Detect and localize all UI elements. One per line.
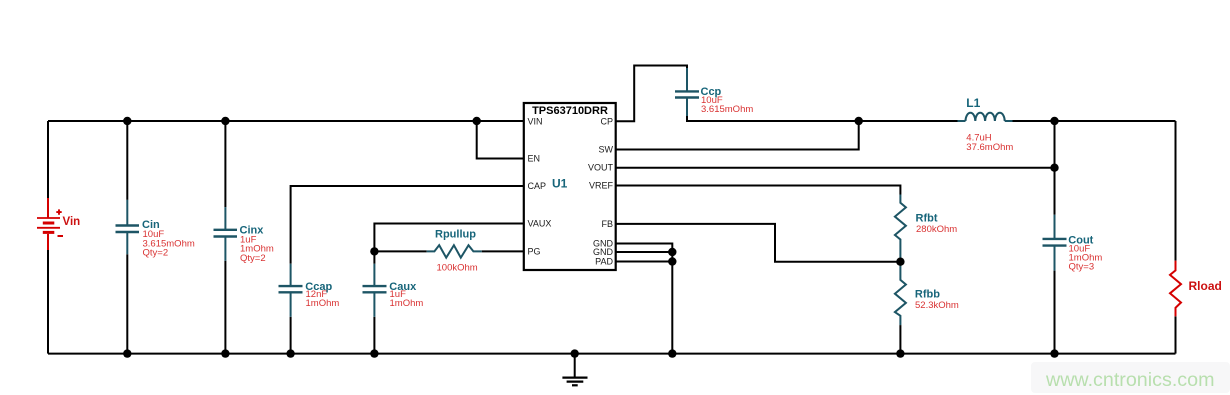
wire FB xyxy=(616,224,901,262)
svg-text:Vin: Vin xyxy=(63,216,81,228)
battery V1 Vin xyxy=(37,198,63,250)
wire left vertical battery branch xyxy=(47,121,49,198)
resistor R3 Rfbb xyxy=(895,262,906,325)
wire Ccp bottom to SW node and L1 xyxy=(687,116,958,121)
svg-text:CP: CP xyxy=(600,116,613,126)
svg-text:VOUT: VOUT xyxy=(588,163,614,173)
wire Cout branch xyxy=(1054,121,1056,215)
wire GND pins xyxy=(616,244,673,354)
svg-text:VAUX: VAUX xyxy=(528,219,552,229)
capacitor C5 Ccp xyxy=(675,68,699,116)
svg-text:Rfbb: Rfbb xyxy=(915,289,940,301)
wire EN branch xyxy=(477,121,524,159)
svg-text:GND: GND xyxy=(593,247,614,257)
svg-text:EN: EN xyxy=(528,154,541,164)
svg-text:Qty=2: Qty=2 xyxy=(143,248,169,259)
svg-text:100kOhm: 100kOhm xyxy=(437,262,478,273)
svg-text:Rfbt: Rfbt xyxy=(916,213,938,225)
svg-text:52.3kOhm: 52.3kOhm xyxy=(915,300,959,311)
wire CP up and over xyxy=(616,66,687,122)
svg-text:TPS63710DRR: TPS63710DRR xyxy=(532,105,608,117)
svg-text:280kOhm: 280kOhm xyxy=(916,224,957,235)
svg-text:Qty=2: Qty=2 xyxy=(240,253,266,264)
wire Caux vertical xyxy=(373,251,375,263)
svg-text:37.6mOhm: 37.6mOhm xyxy=(966,142,1013,153)
svg-text:SW: SW xyxy=(599,145,614,155)
svg-text:PG: PG xyxy=(528,246,541,256)
svg-text:Qty=3: Qty=3 xyxy=(1069,262,1095,273)
ground xyxy=(562,354,587,386)
wire L1 to top right corner xyxy=(1013,120,1176,122)
resistor R1 Rpullup xyxy=(427,245,482,258)
svg-text:VIN: VIN xyxy=(528,116,543,126)
resistor R2 Rfbt xyxy=(895,195,906,262)
capacitor C2 Cinx xyxy=(214,207,238,261)
svg-text:3.615mOhm: 3.615mOhm xyxy=(701,104,753,115)
capacitor C3 Ccap xyxy=(279,264,303,317)
svg-text:1mOhm: 1mOhm xyxy=(390,298,424,309)
resistor R4 Rload xyxy=(1170,261,1181,317)
svg-text:Rpullup: Rpullup xyxy=(435,229,476,241)
watermark xyxy=(1031,362,1230,393)
capacitor C4 Caux xyxy=(363,264,387,317)
svg-text:L1: L1 xyxy=(966,96,980,110)
svg-text:U1: U1 xyxy=(552,176,568,190)
node junction dots xyxy=(123,117,1059,358)
inductor L1 xyxy=(958,113,1013,121)
wire CAP branch xyxy=(291,186,524,264)
wire Cinx branch vertical xyxy=(224,121,226,207)
svg-text:CAP: CAP xyxy=(528,181,547,191)
wire bottom bus xyxy=(48,353,1176,355)
wire top bus Vin to chip VIN xyxy=(48,120,524,122)
wire right vertical xyxy=(1175,121,1177,261)
svg-text:PAD: PAD xyxy=(595,257,613,267)
wire SW xyxy=(616,121,859,150)
svg-text:FB: FB xyxy=(601,219,613,229)
wire VREF to Rfbt xyxy=(616,186,901,195)
svg-text:VREF: VREF xyxy=(589,181,614,191)
svg-text:1mOhm: 1mOhm xyxy=(306,298,340,309)
capacitor C6 Cout xyxy=(1043,215,1067,271)
wire PG to Rpullup xyxy=(374,250,426,252)
svg-text:www.cntronics.com: www.cntronics.com xyxy=(1045,369,1214,391)
op-amp U1 chip body TPS63710DRR xyxy=(524,103,616,270)
wire VAUX branch xyxy=(374,224,523,252)
svg-text:Rload: Rload xyxy=(1189,279,1222,293)
capacitor C1 Cin xyxy=(116,200,140,254)
wire VOUT xyxy=(616,167,1055,169)
wire Cin branch vertical xyxy=(126,121,128,200)
